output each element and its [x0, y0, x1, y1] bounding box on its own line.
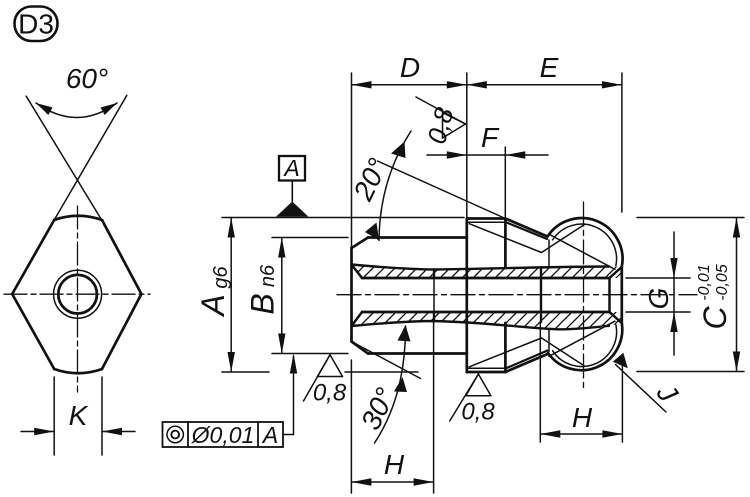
notch flank inner bottom: [506, 351, 547, 369]
right countersink bottom: [610, 312, 622, 323]
extension line D/E boundary (x=466.8): [466, 73, 468, 219]
front view vertical centerline: [77, 206, 79, 392]
svg-text:H: H: [384, 449, 405, 480]
right bore end vertical: [608, 278, 611, 312]
H left extension right (x=433.6): [433, 322, 435, 493]
ball top lobe inner arc: [553, 224, 617, 265]
hatch top band: [340, 260, 634, 290]
svg-text:G: G: [643, 288, 674, 310]
60 deg angle arc: [36, 103, 117, 118]
notch vertex edge bottom (x=549): [548, 329, 550, 352]
dimension G (outside arrows): [673, 232, 675, 355]
svg-text:-0,01: -0,01: [696, 264, 713, 300]
dimension A g6: [230, 218, 232, 373]
datum line / A top extension (y=217.5): [222, 217, 464, 219]
ball vertical centerline: [583, 202, 585, 392]
60 deg arc arrow left: [36, 103, 53, 115]
inner taper line top: [352, 265, 610, 270]
svg-text:A: A: [282, 155, 299, 181]
side view horizontal centerline: [337, 294, 697, 296]
H right extensions: [539, 323, 541, 442]
30 deg arc: [375, 326, 406, 443]
ball top lobe outer arc: [548, 218, 623, 267]
roughness 0,8 under land: [450, 374, 491, 421]
svg-text:0,8: 0,8: [461, 399, 495, 426]
relief cross line bottom: [549, 321, 615, 356]
svg-text:E: E: [540, 52, 559, 83]
dimension B n6: [281, 238, 283, 354]
dimension C: [736, 218, 738, 372]
svg-text:g6: g6: [210, 266, 232, 289]
30 deg line: [352, 342, 421, 379]
relief cross line top: [549, 234, 615, 269]
svg-text:B: B: [245, 293, 281, 314]
notch vertex edge top (x=549): [548, 240, 550, 267]
relief steep line bottom: [469, 338, 541, 367]
ball bottom lobe inner arc: [553, 325, 617, 367]
concentricity tolerance frame: [163, 422, 284, 447]
front view: 60 deg tip extension lines (X): [26, 95, 127, 220]
extension line left of shank (x=351): [351, 73, 353, 248]
A bottom extension (y=372): [222, 371, 269, 373]
shank top edge: [368, 236, 467, 239]
hatch bottom band: [340, 305, 634, 335]
roughness 0,8 on B extension: [304, 355, 343, 401]
front view horizontal centerline: [4, 293, 150, 295]
dimension H right: [540, 433, 622, 435]
radius J leader: [616, 365, 667, 413]
ball right flat: [620, 267, 623, 323]
bore top edge: [362, 277, 610, 280]
top chamfer: [352, 238, 369, 249]
svg-text:A: A: [261, 422, 278, 448]
body outline left shank: [352, 219, 548, 373]
20 deg line: [378, 161, 506, 219]
svg-text:H: H: [572, 402, 593, 433]
front view hole outer circle: [54, 270, 102, 318]
B bottom extension (y=353.5): [272, 353, 348, 355]
front view diamond outline: [12, 216, 141, 374]
datum A flag: [276, 155, 309, 217]
notch flank inner top: [506, 222, 547, 239]
dimension D: [352, 84, 467, 86]
left face: [350, 248, 353, 342]
land end vertical bottom: [504, 323, 507, 372]
svg-text:0,8: 0,8: [313, 380, 347, 407]
bore bottom edge: [362, 311, 610, 314]
svg-text:n6: n6: [257, 264, 279, 287]
front view hole inner circle: [58, 275, 97, 314]
svg-text:A: A: [195, 294, 231, 317]
roughness 0,8 at F extension (rotated): [416, 97, 466, 138]
svg-text:C: C: [697, 306, 733, 330]
extension line F right (x=505.3): [504, 147, 506, 217]
G extension lines: [626, 277, 690, 279]
relief rise line top: [542, 225, 585, 253]
svg-text:-0,05: -0,05: [714, 264, 731, 301]
svg-text:Ø0,01: Ø0,01: [191, 422, 255, 448]
shank bottom edge: [368, 352, 467, 355]
head relieved flat edge bottom: [469, 367, 505, 369]
bottom chamfer: [352, 342, 369, 354]
svg-text:F: F: [481, 122, 500, 153]
B top extension (y=237.5): [272, 237, 348, 239]
C extension lines: [637, 217, 744, 219]
inner taper line bottom: [352, 321, 610, 329]
extension line E right / ball (x=621.9): [621, 73, 623, 212]
notch flank outer top: [505, 219, 547, 237]
internal step at x=434: [433, 270, 435, 322]
right countersink top: [610, 267, 622, 278]
60 deg arc arrow right: [101, 103, 118, 115]
dimension H left: [351, 481, 433, 483]
svg-text:D3: D3: [18, 9, 54, 40]
land end vertical top: [504, 219, 507, 268]
head relieved flat edge top: [469, 221, 505, 223]
svg-text:D: D: [400, 52, 420, 83]
flange face vertical: [465, 219, 468, 373]
svg-text:K: K: [69, 400, 89, 431]
form bubble D3: [15, 7, 58, 42]
left countersink bottom: [352, 312, 363, 326]
land bottom edge: [467, 371, 506, 374]
K extension lines: [54, 377, 102, 455]
dimension F (outside arrows): [427, 154, 548, 156]
K dimension line with outside arrows: [21, 431, 135, 433]
internal step at x=541: [540, 268, 542, 322]
svg-text:60°: 60°: [66, 63, 108, 94]
concentricity leader: [283, 356, 294, 435]
notch flank outer bottom: [505, 354, 547, 372]
20 deg arc: [379, 131, 411, 241]
relief rise line bottom: [542, 338, 585, 366]
left countersink top: [352, 265, 363, 279]
ball bottom lobe outer arc: [548, 323, 622, 370]
relief steep line top: [469, 224, 541, 253]
H left extension left (x=351.4): [350, 360, 352, 493]
dimension E: [467, 84, 622, 86]
land top edge: [467, 217, 506, 220]
